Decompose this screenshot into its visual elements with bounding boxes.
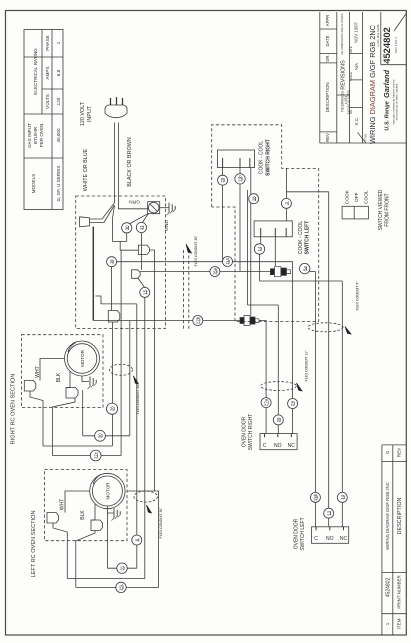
svg-text:COOK: COOK	[344, 189, 350, 204]
svg-text:OVEN DOOR: OVEN DOOR	[294, 518, 300, 549]
svg-text:C.A.D. FILE NAME: C.A.D. FILE NAME	[376, 24, 380, 46]
svg-text:28: 28	[276, 417, 281, 422]
svg-text:11b: 11b	[238, 175, 243, 183]
svg-text:DR.: DR.	[349, 109, 353, 114]
svg-text:15b: 15b	[313, 493, 318, 501]
svg-text:SWITCH LEFT: SWITCH LEFT	[300, 517, 306, 550]
svg-text:C: C	[263, 443, 267, 449]
svg-text:REVISIONS: REVISIONS	[341, 60, 347, 90]
svg-text:FLEX CONDUIT 10": FLEX CONDUIT 10"	[305, 350, 309, 382]
svg-text:0: 0	[385, 451, 390, 454]
svg-text:27b: 27b	[195, 316, 200, 324]
svg-text:11a: 11a	[225, 257, 230, 265]
svg-text:31: 31	[120, 565, 125, 570]
svg-text:U.S. Range: U.S. Range	[385, 101, 391, 131]
svg-text:FLEX CONDUIT 9": FLEX CONDUIT 9"	[356, 281, 360, 311]
svg-text:27a: 27a	[264, 398, 269, 406]
svg-text:NO: NO	[274, 443, 282, 449]
svg-text:ELECTRICAL RATING: ELECTRICAL RATING	[33, 48, 38, 95]
svg-text:FROM FRONT: FROM FRONT	[385, 193, 391, 226]
svg-text:PRINT NUMBER: PRINT NUMBER	[397, 575, 402, 608]
svg-text:120 VOLT: 120 VOLT	[80, 101, 86, 126]
svg-text:GAS INPUT: GAS INPUT	[27, 123, 32, 148]
svg-text:OVEN DOOR: OVEN DOOR	[242, 416, 248, 447]
svg-text:15a: 15a	[213, 267, 218, 275]
svg-text:SWITCH LEFT: SWITCH LEFT	[305, 221, 311, 255]
svg-text:REV: REV	[325, 133, 330, 142]
svg-text:MODELS: MODELS	[31, 174, 36, 193]
svg-text:N/A: N/A	[354, 63, 359, 70]
svg-text:NC: NC	[340, 536, 348, 542]
svg-text:ALL DIMENSIONS ARE IN INCHES: ALL DIMENSIONS ARE IN INCHES	[340, 13, 344, 55]
svg-text:26: 26	[110, 406, 115, 411]
svg-text:27c: 27c	[93, 451, 98, 459]
svg-text:WHITE OR BLUE: WHITE OR BLUE	[83, 148, 89, 191]
svg-text:1: 1	[56, 41, 61, 44]
svg-text:4524802: 4524802	[385, 578, 391, 598]
svg-text:C: C	[314, 536, 318, 542]
svg-text:K.C.: K.C.	[354, 117, 359, 125]
svg-text:28: 28	[251, 196, 256, 201]
svg-text:AMPS: AMPS	[45, 66, 50, 79]
svg-text:VOLTS: VOLTS	[45, 94, 50, 109]
svg-text:NOV 13/07: NOV 13/07	[353, 21, 358, 42]
svg-text:FLEX CONDUIT 36": FLEX CONDUIT 36"	[159, 507, 163, 539]
svg-text:BLK: BLK	[80, 510, 86, 520]
svg-text:WHT: WHT	[60, 499, 66, 510]
svg-text:29: 29	[220, 177, 225, 182]
svg-text:SWITCH VIEWED: SWITCH VIEWED	[378, 189, 384, 230]
svg-text:COOK - COOL: COOK - COOL	[298, 221, 304, 255]
svg-text:SHT 1 OF 1: SHT 1 OF 1	[394, 37, 398, 53]
svg-text:6.8: 6.8	[56, 69, 61, 76]
svg-text:FLEX CONDUIT 36": FLEX CONDUIT 36"	[136, 383, 140, 415]
svg-text:NO: NO	[326, 536, 334, 542]
svg-text:13: 13	[326, 510, 331, 515]
svg-text:LEFT RC OVEN SECTION: LEFT RC OVEN SECTION	[31, 510, 37, 577]
svg-text:BLACK OR BROWN: BLACK OR BROWN	[127, 137, 133, 187]
svg-text:COOK - COOL: COOK - COOL	[259, 141, 265, 175]
svg-text:40,000: 40,000	[56, 128, 61, 142]
svg-text:MOTOR: MOTOR	[80, 349, 85, 367]
svg-text:16: 16	[109, 259, 114, 264]
svg-text:COOL: COOL	[363, 190, 369, 204]
svg-text:DATE: DATE	[349, 46, 353, 53]
svg-text:30: 30	[124, 225, 129, 230]
svg-text:MOTOR: MOTOR	[106, 482, 111, 500]
svg-text:GRN: GRN	[129, 199, 140, 205]
svg-text:14: 14	[340, 494, 345, 499]
svg-text:31: 31	[139, 225, 144, 230]
svg-text:ITEM: ITEM	[397, 618, 402, 629]
svg-text:5a: 5a	[302, 266, 307, 271]
svg-text:WIRING DIAGRAM G/GF RGB 2NC: WIRING DIAGRAM G/GF RGB 2NC	[385, 482, 390, 549]
svg-text:SWITCH RIGHT: SWITCH RIGHT	[266, 139, 272, 176]
svg-text:GARLAND COMMERCIAL RANGES LIMI: GARLAND COMMERCIAL RANGES LIMITED	[393, 79, 396, 124]
svg-text:PER OVEN: PER OVEN	[39, 124, 44, 148]
svg-text:WIRING DIAGRAM G/GF RGB 2NC: WIRING DIAGRAM G/GF RGB 2NC	[368, 24, 377, 144]
svg-text:DESCRIPTION: DESCRIPTION	[325, 82, 330, 112]
svg-text:29: 29	[290, 401, 295, 406]
svg-text:FLEX CONDUIT 36": FLEX CONDUIT 36"	[194, 235, 198, 267]
svg-text:1: 1	[385, 622, 390, 625]
svg-text:RIGHT RC OVEN SECTION: RIGHT RC OVEN SECTION	[11, 374, 17, 445]
svg-text:Garland: Garland	[382, 70, 391, 98]
svg-text:BTU/HR: BTU/HR	[33, 126, 38, 144]
svg-text:WHT: WHT	[35, 366, 41, 377]
svg-text:INPUT: INPUT	[87, 105, 93, 122]
svg-text:REV: REV	[397, 447, 402, 457]
svg-text:G, GF, U SERIES: G, GF, U SERIES	[56, 166, 61, 202]
svg-text:30: 30	[98, 433, 103, 438]
svg-text:SCALE: SCALE	[349, 72, 353, 81]
svg-text:15L: 15L	[119, 583, 124, 591]
svg-text:PHASE: PHASE	[45, 35, 50, 51]
svg-text:DESCRIPTION: DESCRIPTION	[397, 497, 403, 534]
svg-text:OFF: OFF	[354, 192, 360, 202]
svg-text:DR.: DR.	[325, 54, 330, 61]
svg-text:GND: GND	[164, 220, 170, 231]
svg-text:NC: NC	[288, 443, 296, 449]
svg-text:SWITCH RIGHT: SWITCH RIGHT	[248, 414, 254, 451]
svg-text:MISSISSAUGA, ONTARIO, CANADA: MISSISSAUGA, ONTARIO, CANADA	[396, 83, 399, 120]
svg-text:BLK: BLK	[56, 372, 62, 382]
svg-text:14: 14	[257, 246, 262, 251]
svg-text:DATE: DATE	[325, 35, 330, 46]
svg-text:TITLE:: TITLE:	[364, 133, 368, 141]
svg-text:120: 120	[56, 97, 61, 105]
svg-text:15: 15	[142, 289, 147, 294]
svg-text:4524802: 4524802	[381, 27, 392, 64]
svg-text:APPR: APPR	[325, 15, 330, 26]
